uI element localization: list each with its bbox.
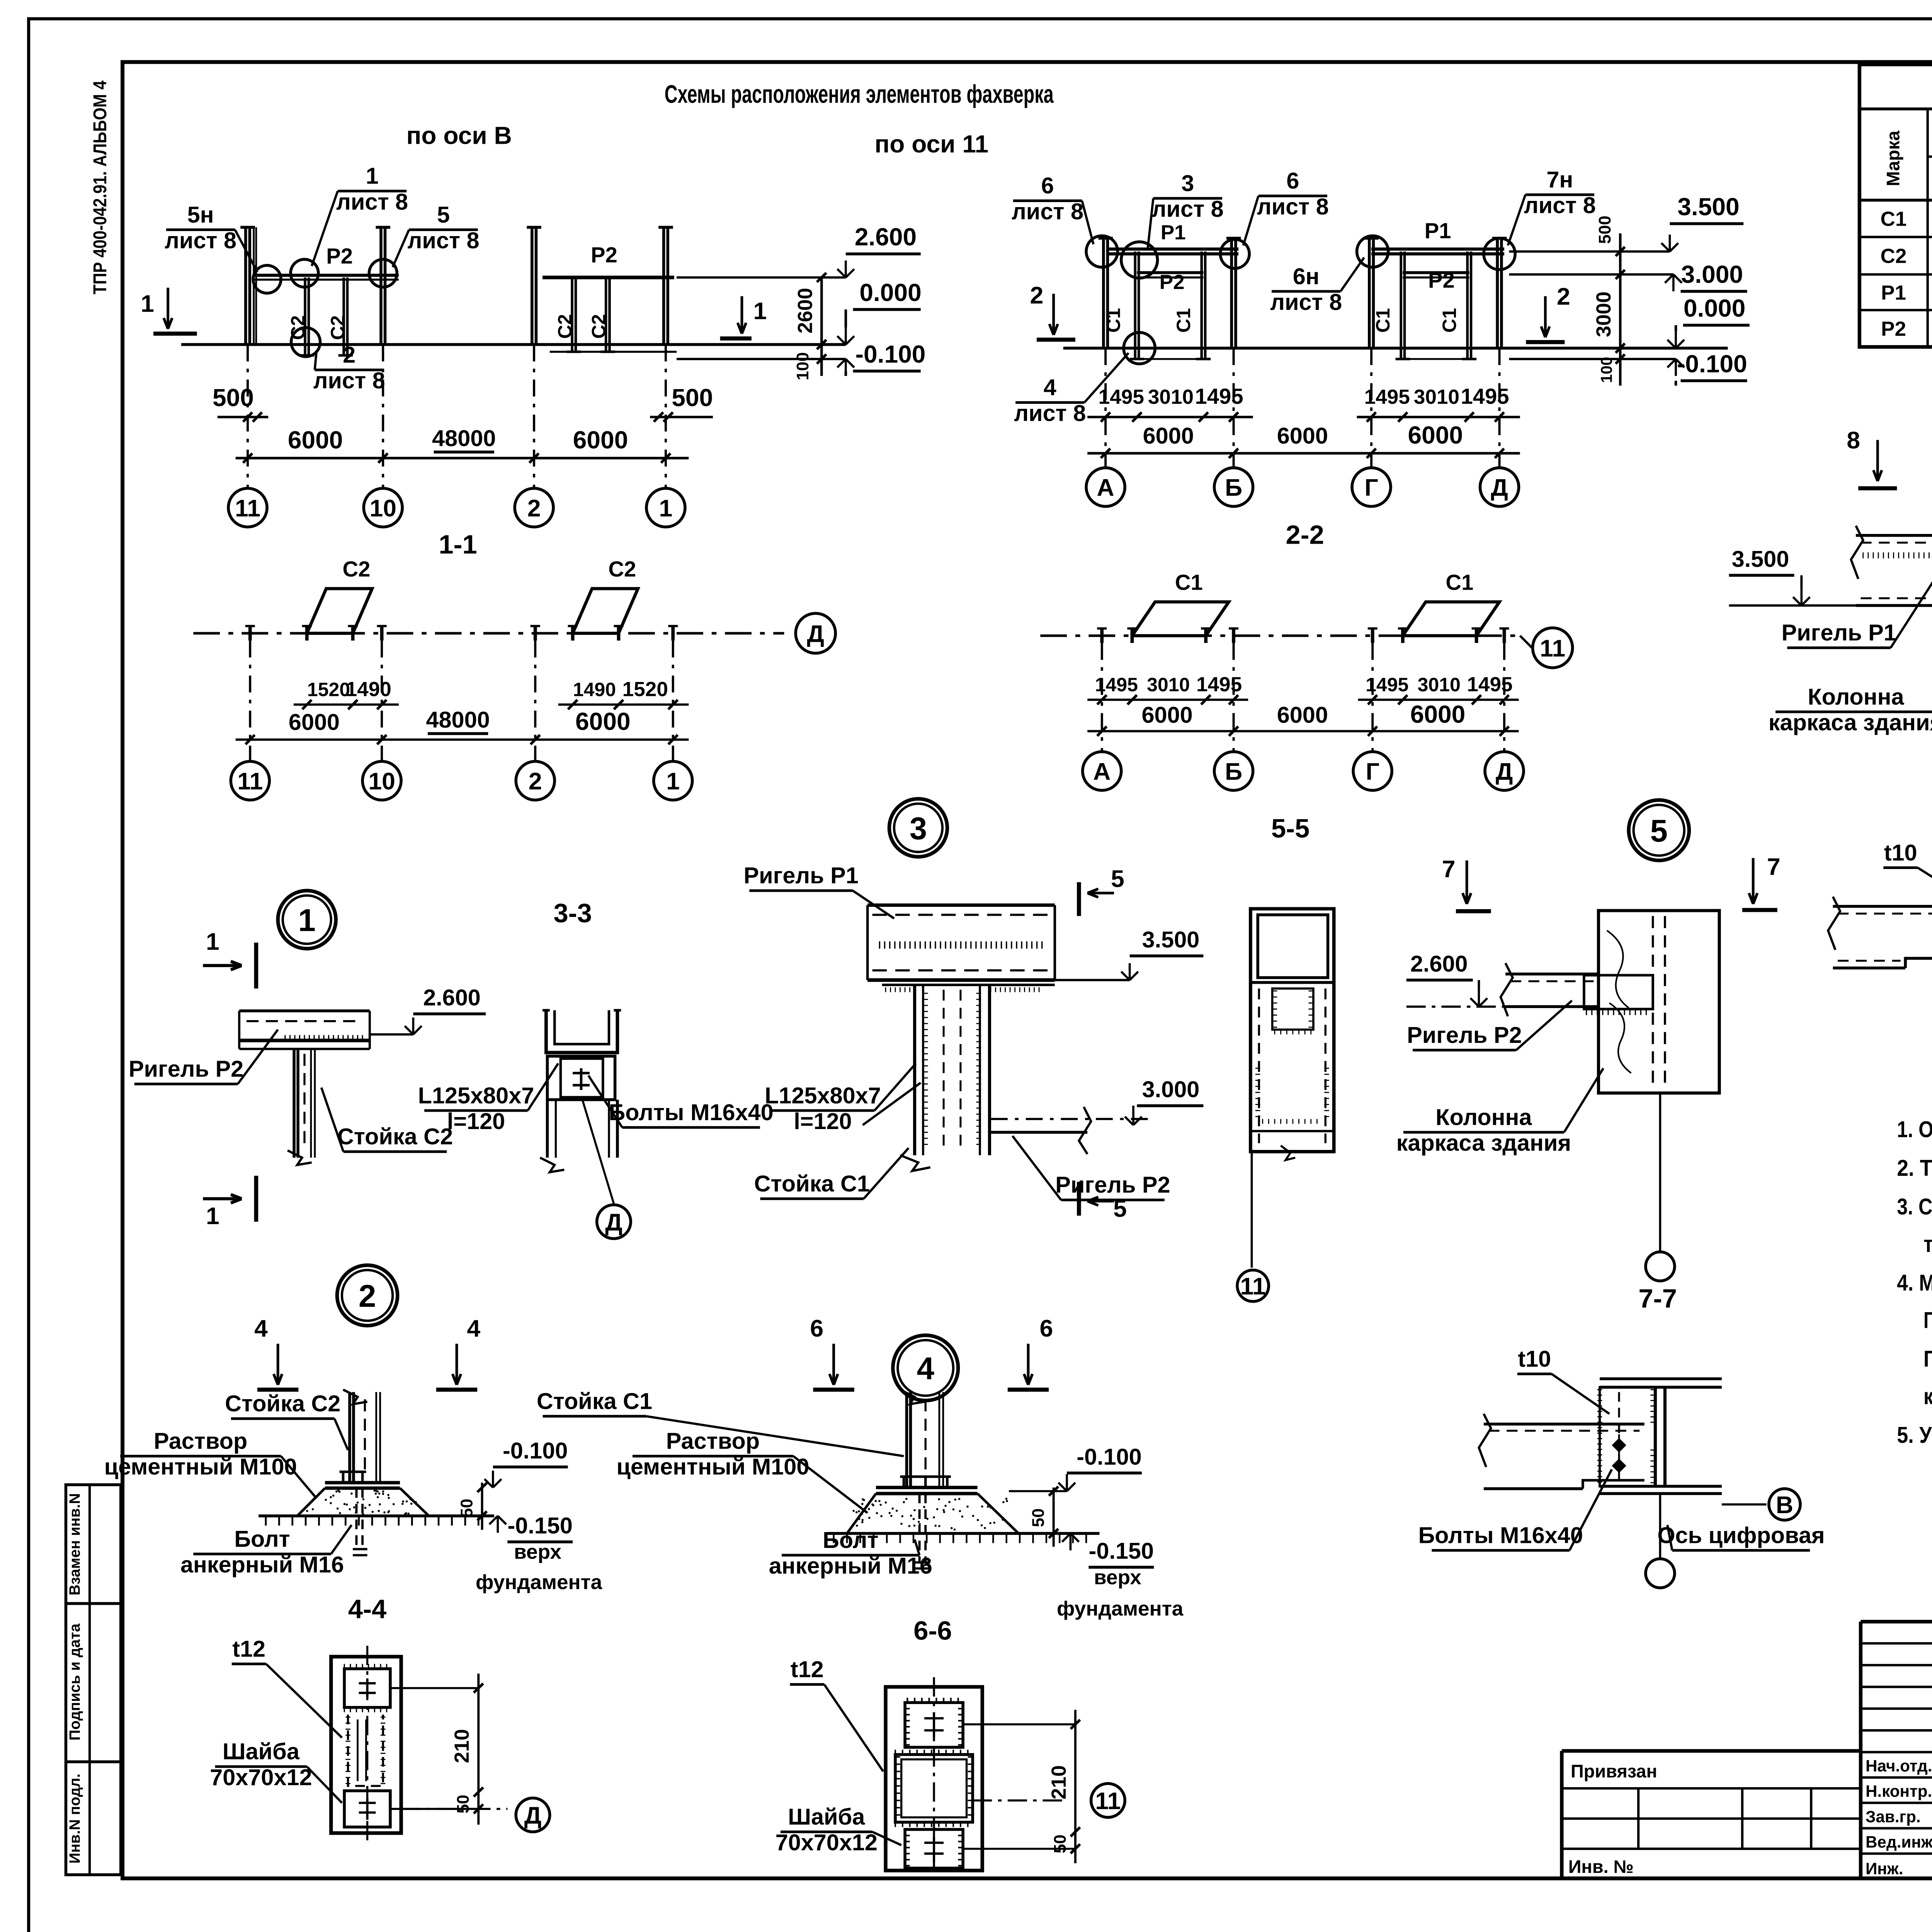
svg-text:С1: С1 [1173,308,1194,333]
svg-text:-0.150: -0.150 [1089,1538,1154,1564]
svg-text:Инж.: Инж. [1866,1859,1903,1878]
svg-text:3: 3 [1181,170,1194,196]
svg-text:Р1: Р1 [1161,221,1186,244]
svg-text:8: 8 [1847,427,1860,454]
svg-text:1490: 1490 [346,678,391,701]
svg-text:l=120: l=120 [447,1108,505,1134]
svg-text:Ригель Р1: Ригель Р1 [743,862,858,888]
svg-text:5н: 5н [187,202,214,228]
svg-text:3-3: 3-3 [553,898,592,928]
svg-text:С2: С2 [554,314,576,339]
svg-text:С2: С2 [608,557,636,581]
svg-text:50: 50 [457,1498,476,1517]
svg-text:-0.150: -0.150 [508,1512,573,1538]
svg-text:4: 4 [254,1315,268,1342]
svg-text:t12: t12 [232,1636,265,1662]
svg-text:L125х80х7: L125х80х7 [418,1082,534,1108]
svg-text:по оси В: по оси В [406,122,512,150]
svg-text:3.500: 3.500 [1732,546,1789,572]
svg-text:6000: 6000 [1277,423,1328,449]
svg-text:100: 100 [793,352,812,380]
svg-text:6000: 6000 [1142,702,1193,728]
svg-text:лист 8: лист 8 [1012,198,1083,224]
svg-text:0.000: 0.000 [859,279,921,306]
svg-text:С1: С1 [1372,308,1394,333]
svg-text:Привязан: Привязан [1571,1761,1657,1781]
svg-text:Болты М16х40: Болты М16х40 [1418,1522,1583,1548]
svg-text:6000: 6000 [575,707,631,735]
svg-text:цементный М100: цементный М100 [616,1454,809,1480]
svg-text:Ригель Р2: Ригель Р2 [1407,1022,1522,1048]
svg-text:А: А [1097,474,1114,501]
svg-text:3010: 3010 [1148,386,1194,408]
svg-text:6000: 6000 [1408,421,1463,449]
svg-text:2: 2 [359,1279,376,1314]
svg-text:5: 5 [1111,866,1124,893]
svg-text:Р2: Р2 [1881,318,1906,340]
svg-text:6-6: 6-6 [913,1616,952,1646]
svg-text:11: 11 [237,768,263,795]
svg-text:3.500: 3.500 [1677,193,1739,221]
svg-text:70х70х12: 70х70х12 [210,1764,312,1790]
svg-text:лист 8: лист 8 [1152,196,1224,222]
svg-text:4: 4 [467,1315,480,1342]
svg-text:50: 50 [1051,1835,1070,1854]
svg-text:анкерный М16: анкерный М16 [180,1551,344,1577]
svg-text:Болт: Болт [823,1527,878,1553]
svg-text:Д: Д [1496,758,1513,785]
svg-text:6000: 6000 [289,709,340,735]
svg-text:С2: С2 [342,557,370,581]
svg-text:10: 10 [368,768,395,795]
svg-text:1: 1 [659,495,673,522]
svg-text:6000: 6000 [1277,702,1328,728]
svg-text:Д: Д [1491,474,1508,501]
svg-text:11: 11 [1095,1787,1121,1815]
svg-text:анкерный М16: анкерный М16 [769,1553,932,1579]
svg-text:лист 8: лист 8 [1524,192,1596,218]
svg-text:Стойка С1: Стойка С1 [754,1171,870,1197]
svg-text:лист 8: лист 8 [1014,400,1086,426]
svg-text:11: 11 [1540,635,1565,662]
svg-text:3.500: 3.500 [1142,927,1200,952]
svg-text:Б: Б [1225,474,1242,501]
svg-text:Шайба: Шайба [223,1738,300,1764]
svg-text:4-4: 4-4 [348,1594,386,1624]
svg-text:Инв. №: Инв. № [1568,1857,1634,1877]
svg-text:Нач.отд.: Нач.отд. [1866,1757,1932,1775]
svg-text:Колонна: Колонна [1808,684,1904,709]
svg-text:С1: С1 [1439,308,1460,333]
svg-text:3010: 3010 [1418,674,1461,696]
svg-text:толщиной 6 мм.Сварку производи: толщиной 6 мм.Сварку производить электро… [1923,1231,1932,1257]
svg-text:50: 50 [454,1795,473,1814]
svg-text:3.000: 3.000 [1142,1077,1200,1102]
svg-text:кручивания под гайку установит: кручивания под гайку установить одну пру… [1923,1383,1932,1409]
svg-text:С2: С2 [287,315,309,340]
svg-text:каркаса здания: каркаса здания [1769,709,1932,735]
svg-text:48000: 48000 [426,707,490,733]
svg-text:Р2: Р2 [591,243,617,267]
svg-text:по оси 11: по оси 11 [875,130,989,158]
svg-text:11: 11 [235,495,260,522]
svg-text:Ригель Р2: Ригель Р2 [1055,1172,1170,1198]
svg-text:ГОСТ 7798-70* класса прочности: ГОСТ 7798-70* класса прочности 5.6 по ГО… [1923,1307,1932,1333]
svg-text:фундамента: фундамента [1057,1597,1184,1620]
svg-text:500: 500 [672,384,713,412]
svg-text:7: 7 [1442,856,1456,883]
svg-text:Н.контр.: Н.контр. [1866,1782,1932,1800]
svg-text:А: А [1093,758,1111,785]
svg-text:Шайба: Шайба [788,1804,865,1830]
svg-text:2600: 2600 [794,288,816,333]
svg-text:1: 1 [206,928,219,955]
svg-text:1: 1 [366,163,379,189]
svg-text:6: 6 [1286,168,1299,194]
svg-text:1: 1 [141,290,154,317]
svg-text:Колонна: Колонна [1435,1104,1532,1130]
svg-text:Марка: Марка [1883,130,1903,186]
svg-text:2: 2 [527,495,541,522]
svg-text:Зав.гр.: Зав.гр. [1866,1808,1921,1826]
svg-text:Г: Г [1366,758,1379,785]
svg-text:4. Монтажные соединения принят: 4. Монтажные соединения приняты на болта… [1897,1270,1932,1296]
svg-text:11: 11 [1240,1273,1266,1300]
svg-text:1495: 1495 [1467,673,1512,696]
svg-text:2.600: 2.600 [423,985,481,1010]
svg-text:1520: 1520 [307,679,350,701]
svg-text:4: 4 [917,1351,934,1386]
svg-text:С1: С1 [1446,570,1473,594]
svg-text:С1: С1 [1175,570,1203,594]
svg-text:В: В [1776,1492,1793,1519]
svg-text:3.000: 3.000 [1681,260,1743,288]
svg-text:Р2: Р2 [1428,268,1455,293]
svg-text:t10: t10 [1518,1346,1551,1372]
svg-text:6000: 6000 [288,426,343,454]
svg-text:2.600: 2.600 [1410,951,1468,976]
svg-text:Схемы расположения элементов ф: Схемы расположения элементов фахверка [665,80,1054,108]
svg-text:10: 10 [369,495,396,522]
svg-text:6: 6 [1041,173,1054,199]
svg-text:верх: верх [1094,1566,1141,1589]
svg-text:210: 210 [1048,1765,1070,1799]
svg-text:70х70х12: 70х70х12 [776,1830,878,1855]
svg-text:6000: 6000 [1143,423,1194,449]
svg-text:Раствор: Раствор [666,1428,760,1454]
svg-text:6: 6 [810,1315,823,1342]
svg-text:1: 1 [298,903,316,938]
svg-text:-0.100: -0.100 [1077,1444,1141,1469]
svg-text:1495: 1495 [1195,384,1243,408]
svg-text:3: 3 [910,811,927,846]
svg-text:7: 7 [1767,853,1781,880]
svg-text:лист 8: лист 8 [1270,289,1342,315]
svg-text:100: 100 [1597,357,1615,383]
svg-text:Д: Д [807,620,824,647]
svg-text:лист 8: лист 8 [313,367,385,393]
svg-text:6н: 6н [1293,263,1320,289]
svg-text:t12: t12 [791,1656,824,1682]
svg-text:L125х80х7: L125х80х7 [765,1082,881,1108]
svg-text:каркаса здания: каркаса здания [1396,1130,1571,1156]
svg-text:1: 1 [666,768,680,795]
svg-text:3000: 3000 [1592,291,1615,337]
svg-text:С2: С2 [588,314,610,339]
svg-text:Р1: Р1 [1881,281,1906,304]
svg-text:ТПР 400-042.91. АЛЬБОМ 4: ТПР 400-042.91. АЛЬБОМ 4 [90,80,111,294]
svg-text:500: 500 [1595,216,1614,244]
svg-text:3010: 3010 [1414,386,1459,408]
svg-text:Р2: Р2 [326,244,353,268]
svg-text:1495: 1495 [1196,673,1242,696]
svg-text:С2: С2 [1881,245,1907,268]
svg-text:Стойка С2: Стойка С2 [225,1391,340,1417]
svg-text:Б: Б [1225,758,1242,785]
svg-text:-0.100: -0.100 [855,340,926,368]
svg-text:l=120: l=120 [794,1108,852,1134]
svg-text:2: 2 [529,768,542,795]
svg-text:0.000: 0.000 [1684,294,1745,322]
svg-text:3. Стойка С1 и ригель Р1 выпол: 3. Стойка С1 и ригель Р1 выполняются сва… [1897,1194,1932,1219]
svg-text:Вед.инж.: Вед.инж. [1866,1833,1932,1851]
svg-text:1495: 1495 [1461,384,1509,408]
svg-text:лист 8: лист 8 [165,227,236,253]
svg-text:1490: 1490 [573,679,616,701]
svg-text:Р1: Р1 [1425,218,1451,243]
svg-text:Подпись и дата: Подпись и дата [66,1623,83,1740]
svg-text:1. Общие указания см. на листе: 1. Общие указания см. на листе 1. [1897,1116,1932,1142]
svg-text:Д: Д [605,1209,622,1236]
svg-text:Болт: Болт [234,1526,290,1552]
svg-text:48000: 48000 [432,425,496,451]
svg-text:6000: 6000 [573,426,628,454]
svg-text:2: 2 [1030,282,1044,309]
svg-text:1520: 1520 [622,678,668,701]
svg-text:6: 6 [1040,1315,1053,1342]
svg-text:7н: 7н [1546,167,1573,192]
svg-text:4: 4 [1044,374,1056,400]
svg-text:6000: 6000 [1410,700,1466,728]
svg-text:5: 5 [437,202,450,228]
svg-text:Ригель Р2: Ригель Р2 [129,1056,243,1082]
svg-text:Болты М16х40: Болты М16х40 [609,1099,773,1125]
svg-text:Стойка С2: Стойка С2 [337,1124,453,1150]
svg-text:С1: С1 [1103,308,1124,333]
svg-text:t10: t10 [1884,840,1917,866]
svg-text:3010: 3010 [1147,674,1190,696]
svg-text:1-1: 1-1 [439,530,477,560]
svg-text:цементный М100: цементный М100 [104,1454,297,1480]
svg-text:7-7: 7-7 [1638,1284,1677,1313]
svg-text:Инв.N подл.: Инв.N подл. [66,1774,83,1864]
svg-text:лист 8: лист 8 [408,227,480,253]
svg-text:210: 210 [451,1729,473,1764]
svg-text:лист 8: лист 8 [336,189,408,214]
svg-text:С2: С2 [327,315,349,340]
svg-text:2. Техническую спецификацию ме: 2. Техническую спецификацию металла см. … [1897,1155,1932,1181]
svg-text:Стойка С1: Стойка С1 [537,1388,652,1414]
svg-text:2-2: 2-2 [1286,520,1324,550]
svg-text:Р2: Р2 [1160,271,1185,294]
svg-text:2: 2 [343,342,355,368]
svg-text:Д: Д [524,1802,542,1829]
svg-text:лист 8: лист 8 [1257,194,1329,219]
svg-text:Взамен инв.N: Взамен инв.N [66,1493,83,1595]
svg-text:С1: С1 [1881,208,1907,231]
svg-text:5. Указания об антикоррозионно: 5. Указания об антикоррозионной защите э… [1897,1422,1932,1448]
svg-text:2: 2 [1557,283,1570,310]
svg-text:1: 1 [753,298,767,325]
svg-text:5: 5 [1650,813,1668,849]
svg-text:Гайки М16 класса прочности 5 п: Гайки М16 класса прочности 5 по ГОСТ 175… [1923,1346,1932,1372]
svg-text:50: 50 [1029,1509,1048,1527]
svg-text:Ось цифровая: Ось цифровая [1657,1522,1825,1548]
svg-text:-0.100: -0.100 [1677,350,1747,378]
svg-text:2.600: 2.600 [855,223,917,251]
svg-text:Раствор: Раствор [154,1428,247,1454]
svg-text:1: 1 [206,1202,219,1230]
svg-text:-0.100: -0.100 [503,1438,568,1464]
svg-text:Ригель Р1: Ригель Р1 [1781,620,1896,646]
svg-text:5-5: 5-5 [1271,813,1310,843]
svg-text:Г: Г [1364,474,1378,501]
svg-text:верх: верх [514,1541,561,1563]
svg-text:фундамента: фундамента [476,1571,602,1594]
